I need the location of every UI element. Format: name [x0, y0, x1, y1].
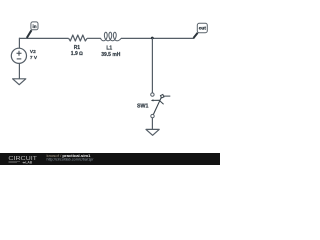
out flag tail — [194, 33, 198, 38]
node junction dot — [151, 37, 154, 40]
footer bar — [0, 153, 220, 165]
svg-text:▪▸LAB: ▪▸LAB — [23, 160, 33, 164]
switch SW1 top terminal circle — [151, 93, 154, 96]
in flag box — [31, 22, 38, 30]
wire V2 bottom — [18, 63, 20, 79]
switch SW1 bottom terminal circle — [151, 114, 154, 117]
wire V2 top — [18, 38, 20, 49]
inductor L1 — [101, 32, 122, 41]
svg-text:7 V: 7 V — [30, 55, 38, 61]
V2 minus sign — [17, 58, 22, 60]
svg-text:in: in — [32, 24, 36, 29]
wire main top horizontal — [19, 37, 69, 39]
svg-text:out: out — [199, 26, 207, 31]
resistor R1 — [69, 35, 88, 41]
switch SW1 handle square — [160, 94, 163, 97]
svg-text:L1: L1 — [106, 46, 112, 52]
out flag box — [197, 23, 207, 32]
switch SW1 blade — [153, 97, 161, 114]
svg-text:V2: V2 — [30, 49, 36, 55]
switch SW1 handle bar — [164, 95, 171, 97]
switch SW1 actuation arrow — [153, 100, 164, 104]
svg-text:SW1: SW1 — [137, 104, 149, 110]
switch SW1 arrow head — [151, 99, 154, 101]
wire switch to ground — [151, 118, 153, 130]
ground left — [13, 79, 26, 85]
in flag tail — [27, 30, 32, 38]
wire between resistor and inductor — [87, 37, 101, 39]
wire junction to switch — [151, 38, 153, 93]
V2 plus sign — [17, 51, 22, 56]
voltage source V2 circle — [11, 48, 26, 63]
svg-text:39.5 mH: 39.5 mH — [101, 52, 121, 58]
svg-text:http://circuitlab.com/c/ba/1pr: http://circuitlab.com/c/ba/1pr — [47, 158, 95, 162]
footer logo underline — [9, 161, 21, 164]
svg-text:1.9 Ω: 1.9 Ω — [71, 51, 83, 57]
wire inductor to out node — [121, 37, 194, 39]
ground right — [146, 129, 159, 135]
